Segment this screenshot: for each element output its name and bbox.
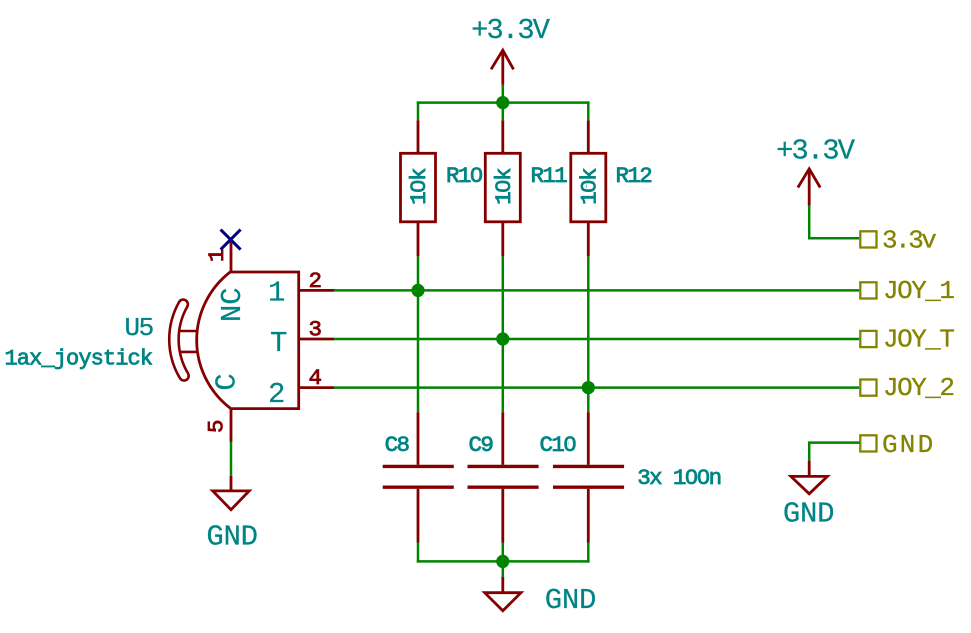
svg-text:C8: C8	[385, 432, 410, 458]
resistor R11	[485, 120, 520, 256]
svg-text:GND: GND	[545, 584, 596, 617]
junction row2 col2	[496, 332, 509, 345]
no-connect X	[221, 230, 241, 250]
hier label JOY_T	[860, 331, 876, 347]
pin 5 (bottom)	[230, 409, 233, 442]
wire: col1 top drop	[417, 101, 420, 120]
svg-text:JOY_T: JOY_T	[883, 324, 954, 354]
svg-text:JOY_2: JOY_2	[883, 373, 954, 403]
wire: col1 resistor to cap	[417, 256, 420, 412]
svg-text:2: 2	[309, 268, 321, 294]
resistor R10	[401, 120, 436, 256]
wire: row JOY_2	[334, 386, 859, 389]
wire: top power stub	[502, 85, 505, 103]
junction bottom	[496, 555, 509, 568]
pin name NC	[216, 287, 249, 322]
power symbol +3.3V right: arrow pin	[798, 169, 820, 206]
junction row1 col1	[411, 284, 424, 297]
svg-text:T: T	[270, 327, 287, 360]
pin 5 number	[204, 420, 230, 433]
ground symbol left	[213, 476, 250, 510]
wire: col3 cap to bottom bus	[587, 543, 590, 563]
capacitor C9	[468, 412, 539, 542]
hier label JOY_2	[860, 380, 876, 396]
joystick lever	[174, 304, 184, 376]
joystick U5 body	[197, 272, 299, 409]
svg-text:3.3v: 3.3v	[882, 226, 936, 256]
svg-text:GND: GND	[206, 521, 257, 554]
svg-text:3: 3	[309, 316, 322, 342]
wire: col1 cap to bottom bus	[417, 543, 420, 563]
svg-text:1ax_joystick: 1ax_joystick	[5, 347, 153, 372]
pin 3 stub (row2)	[299, 338, 334, 341]
junction top	[496, 96, 509, 109]
pin 1 (top, NC)	[230, 240, 233, 272]
svg-text:1: 1	[204, 249, 230, 262]
ground symbol right	[791, 461, 828, 494]
wire: row JOY_T	[334, 338, 859, 341]
wire: col2 cap to bottom bus	[502, 543, 505, 562]
pin 1 number	[204, 249, 230, 262]
svg-text:NC: NC	[216, 287, 249, 322]
svg-text:3x 100n: 3x 100n	[637, 465, 720, 491]
svg-text:JOY_1: JOY_1	[883, 276, 954, 306]
pin 4 stub (row3)	[299, 386, 334, 389]
svg-text:5: 5	[204, 420, 230, 433]
lever tick 1	[180, 330, 197, 333]
wire: col3 resistor to cap	[587, 256, 590, 412]
svg-text:1: 1	[268, 277, 284, 310]
svg-text:C: C	[211, 374, 244, 391]
wire: col3 top drop	[587, 101, 590, 120]
capacitor C8	[383, 412, 454, 542]
hier label GND	[860, 435, 876, 451]
power symbol +3.3V top: arrow pin	[491, 50, 513, 85]
ground symbol bottom	[502, 561, 505, 577]
wire: bottom horizontal bus	[417, 560, 590, 563]
wire: row JOY_1	[334, 289, 859, 292]
svg-text:GND: GND	[882, 430, 935, 460]
lever tick 2	[180, 351, 197, 354]
hier label JOY_1	[860, 282, 876, 298]
svg-text:R11: R11	[531, 163, 568, 189]
capacitor C10	[553, 412, 624, 542]
wire: top horizontal bus	[417, 101, 590, 104]
pin 2 stub (row1)	[299, 289, 334, 292]
wire: col2 top drop	[502, 103, 505, 121]
wire: gnd label to gnd symbol	[809, 443, 859, 461]
hier label 3.3v	[860, 231, 876, 247]
svg-text:R12: R12	[616, 163, 652, 189]
resistor R12	[571, 120, 606, 256]
R11 value 10k	[491, 168, 517, 205]
R10 value 10k	[406, 168, 432, 205]
wire: col2 resistor to cap	[502, 256, 505, 412]
wire: pin5 to gnd	[230, 442, 233, 476]
svg-text:+3.3V: +3.3V	[776, 135, 856, 168]
svg-text:U5: U5	[125, 313, 153, 343]
svg-text:2: 2	[268, 378, 284, 411]
junction row3 col3	[582, 381, 595, 394]
wire: right power drop	[809, 206, 859, 238]
svg-text:4: 4	[309, 365, 322, 391]
svg-text:GND: GND	[783, 498, 834, 531]
pin name C	[211, 374, 244, 391]
R12 value 10k	[577, 168, 603, 205]
svg-text:+3.3V: +3.3V	[471, 14, 551, 47]
svg-text:C9: C9	[469, 432, 493, 458]
